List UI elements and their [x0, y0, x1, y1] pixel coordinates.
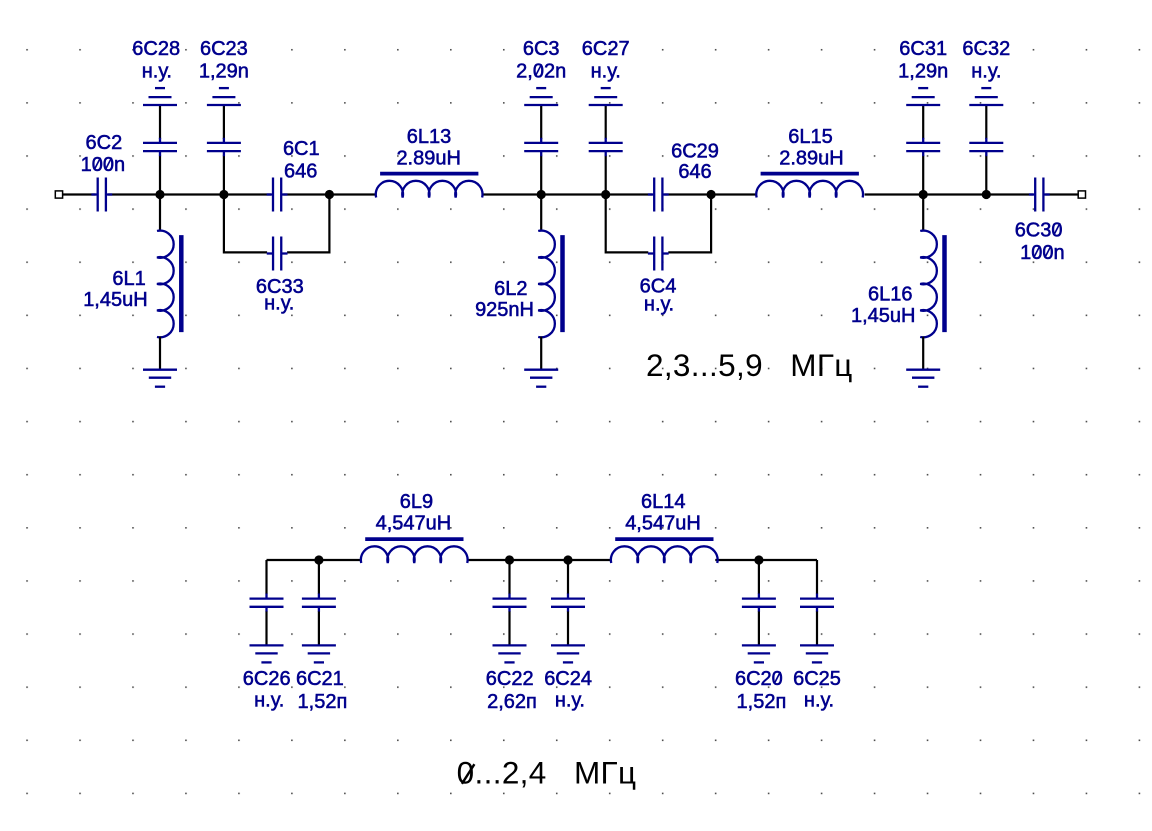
svg-text:1,29n: 1,29n — [898, 61, 948, 83]
svg-text:6C23: 6C23 — [200, 38, 248, 60]
svg-text:н.у.: н.у. — [555, 690, 585, 712]
svg-text:100n: 100n — [1020, 242, 1065, 264]
svg-text:2.89uH: 2.89uH — [396, 147, 461, 169]
svg-text:н.у.: н.у. — [971, 61, 1001, 83]
svg-text:6C3: 6C3 — [523, 38, 560, 60]
svg-text:100n: 100n — [81, 154, 126, 176]
svg-text:6C26: 6C26 — [243, 668, 291, 690]
svg-text:4,547uH: 4,547uH — [376, 512, 452, 534]
svg-text:1,45uH: 1,45uH — [851, 305, 916, 327]
svg-text:6L15: 6L15 — [788, 126, 833, 148]
svg-text:н.у.: н.у. — [804, 690, 834, 712]
svg-text:6L2: 6L2 — [494, 278, 527, 300]
svg-text:6L13: 6L13 — [407, 126, 452, 148]
svg-text:6C28: 6C28 — [132, 38, 180, 60]
svg-text:6C32: 6C32 — [962, 38, 1010, 60]
svg-text:0...2,4 МГц: 0...2,4 МГц — [457, 755, 637, 791]
svg-text:н.у.: н.у. — [142, 61, 172, 83]
svg-text:2,3...5,9 МГц: 2,3...5,9 МГц — [646, 347, 853, 383]
svg-text:2.89uH: 2.89uH — [779, 147, 844, 169]
svg-text:6C31: 6C31 — [899, 38, 947, 60]
svg-text:6C29: 6C29 — [671, 140, 719, 162]
svg-text:6C1: 6C1 — [283, 138, 320, 160]
svg-text:6C21: 6C21 — [296, 668, 344, 690]
svg-text:6C25: 6C25 — [793, 668, 841, 690]
svg-text:6C20: 6C20 — [735, 668, 783, 690]
svg-text:1,29n: 1,29n — [199, 61, 249, 83]
svg-text:6C30: 6C30 — [1015, 219, 1063, 241]
svg-text:6C2: 6C2 — [86, 132, 123, 154]
svg-text:1,52п: 1,52п — [737, 691, 787, 713]
svg-text:н.у.: н.у. — [644, 293, 674, 315]
svg-text:2,02n: 2,02n — [516, 61, 566, 83]
svg-text:1,52п: 1,52п — [298, 691, 348, 713]
svg-text:646: 646 — [284, 161, 317, 183]
svg-text:6C24: 6C24 — [544, 668, 592, 690]
svg-text:4,547uH: 4,547uH — [625, 512, 701, 534]
svg-text:2,62п: 2,62п — [487, 691, 537, 713]
svg-text:925nH: 925nH — [475, 299, 534, 321]
svg-text:6C22: 6C22 — [486, 668, 534, 690]
svg-text:н.у.: н.у. — [254, 690, 284, 712]
svg-text:1,45uH: 1,45uH — [83, 289, 148, 311]
svg-text:6L14: 6L14 — [641, 491, 686, 513]
svg-text:6L1: 6L1 — [112, 268, 145, 290]
svg-text:646: 646 — [678, 161, 711, 183]
svg-text:6L16: 6L16 — [868, 284, 913, 306]
svg-text:н.у.: н.у. — [591, 61, 621, 83]
svg-text:6L9: 6L9 — [400, 491, 433, 513]
svg-text:н.у.: н.у. — [264, 293, 294, 315]
svg-text:6C27: 6C27 — [582, 38, 630, 60]
